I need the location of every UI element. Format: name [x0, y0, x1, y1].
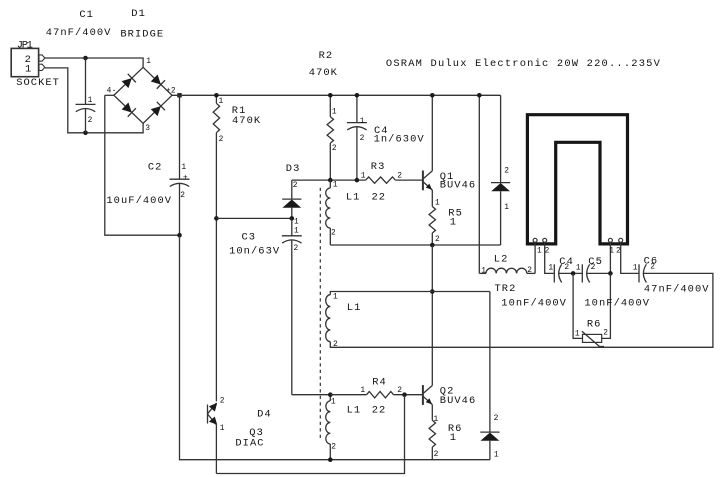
- svg-text:470K: 470K: [232, 115, 261, 127]
- svg-text:R6: R6: [587, 318, 602, 330]
- svg-text:1: 1: [481, 267, 486, 276]
- svg-text:10nF/400V: 10nF/400V: [501, 298, 567, 310]
- resistor R6 emitter: [429, 405, 435, 460]
- svg-text:2: 2: [527, 266, 532, 275]
- bridge diode D1c: [122, 102, 136, 116]
- svg-text:L1: L1: [347, 405, 362, 417]
- svg-text:47nF/400V: 47nF/400V: [46, 27, 112, 39]
- svg-text:L1: L1: [347, 302, 362, 314]
- junction C1 bottom: [83, 131, 88, 136]
- svg-text:10n/63V: 10n/63V: [229, 246, 280, 258]
- diode D5: [491, 95, 510, 245]
- junction midpoint: [430, 289, 435, 294]
- wire midpoint vertical: [431, 245, 433, 386]
- wire JP1 pin2 to bridge node 1: [45, 58, 143, 67]
- svg-text:2: 2: [219, 135, 224, 144]
- svg-text:1: 1: [575, 329, 580, 338]
- wire lamp left pin2 to C4: [545, 242, 555, 273]
- svg-text:TR2: TR2: [495, 283, 517, 295]
- svg-text:BUV46: BUV46: [440, 395, 476, 407]
- transistor Q1: [423, 95, 432, 190]
- junction C4 C5 R6: [571, 271, 576, 276]
- junction R2 bottom: [328, 178, 333, 183]
- svg-text:1: 1: [88, 96, 93, 105]
- inductor L1 winding A: [326, 180, 331, 245]
- svg-text:22: 22: [372, 405, 387, 417]
- svg-text:1: 1: [333, 180, 338, 189]
- svg-text:2: 2: [397, 386, 402, 395]
- svg-text:1n/630V: 1n/630V: [374, 134, 425, 146]
- bridge diode D1b: [151, 74, 165, 88]
- svg-text:R4: R4: [372, 376, 387, 388]
- bridge rectifier D1 outline: [105, 67, 172, 123]
- resistor R5: [429, 190, 435, 245]
- resistor R1: [213, 95, 219, 401]
- junction R2 top: [328, 93, 333, 98]
- svg-text:SOCKET: SOCKET: [16, 77, 60, 89]
- svg-text:1: 1: [450, 432, 457, 444]
- svg-text:1: 1: [494, 451, 499, 460]
- svg-text:2: 2: [616, 247, 621, 256]
- svg-text:3: 3: [145, 124, 150, 133]
- svg-text:2: 2: [434, 450, 439, 459]
- junction R5 bottom: [430, 243, 435, 248]
- svg-text:R3: R3: [371, 161, 386, 173]
- junction C2 bottom: [177, 233, 182, 238]
- inductor L1 winding B: [326, 292, 490, 342]
- svg-text:1: 1: [220, 424, 225, 433]
- svg-text:1: 1: [435, 198, 440, 207]
- svg-text:C3: C3: [242, 232, 257, 244]
- bridge diode D1d: [151, 102, 165, 116]
- junction R1 top: [214, 93, 219, 98]
- capacitor C5: [582, 264, 589, 282]
- resistor R4: [330, 392, 423, 398]
- junction C5 lamp R6: [608, 271, 613, 276]
- inductor L1 winding C: [326, 395, 331, 460]
- svg-text:2: 2: [435, 235, 440, 244]
- junction C4 bottom: [355, 178, 360, 183]
- svg-text:JP1: JP1: [17, 39, 33, 51]
- junction C4 top: [355, 93, 360, 98]
- bridge diode D1a: [122, 74, 136, 88]
- svg-text:BUV46: BUV46: [440, 180, 476, 192]
- svg-text:2: 2: [545, 247, 550, 256]
- svg-text:2: 2: [494, 414, 499, 423]
- svg-text:22: 22: [372, 191, 387, 203]
- svg-text:1: 1: [25, 63, 32, 75]
- wire top rail +2 to D5: [172, 94, 501, 96]
- wire bridge 4- to C2 bottom: [105, 95, 180, 235]
- svg-text:1: 1: [434, 415, 439, 424]
- svg-text:470K: 470K: [309, 67, 338, 79]
- svg-text:DIAC: DIAC: [235, 438, 264, 450]
- svg-text:+: +: [183, 173, 188, 182]
- svg-text:1: 1: [360, 386, 365, 395]
- svg-text:2: 2: [504, 166, 509, 175]
- svg-text:1: 1: [576, 264, 581, 273]
- wire lamp right pin2 to C6: [621, 242, 639, 273]
- node +2 junction: [177, 93, 181, 97]
- svg-text:1: 1: [294, 226, 299, 235]
- svg-text:10uF/400V: 10uF/400V: [106, 195, 172, 207]
- svg-text:4-: 4-: [107, 87, 117, 96]
- junction L2 top: [477, 93, 482, 98]
- svg-text:1: 1: [181, 163, 186, 172]
- svg-text:1: 1: [548, 264, 553, 273]
- capacitor C2: [170, 95, 190, 235]
- junction Q1 collector: [430, 93, 435, 98]
- svg-text:1: 1: [331, 397, 336, 406]
- svg-text:2: 2: [591, 263, 596, 272]
- connector JP1: [11, 48, 45, 76]
- svg-text:1: 1: [609, 247, 614, 256]
- wire JP1 pin1 to C1 bottom and bridge node 3: [45, 68, 143, 133]
- svg-text:2: 2: [331, 443, 336, 452]
- svg-text:2: 2: [360, 134, 365, 143]
- svg-text:2: 2: [603, 329, 608, 338]
- transformer TR2 core: [319, 188, 321, 440]
- capacitor C1: [76, 58, 96, 133]
- svg-text:2: 2: [293, 181, 298, 190]
- wire lamp right pin1: [609, 242, 611, 273]
- svg-text:D3: D3: [286, 163, 301, 175]
- capacitor C4 lamp: [554, 264, 561, 282]
- junction C1 top: [83, 56, 88, 61]
- svg-text:OSRAM Dulux Electronic 20W 220: OSRAM Dulux Electronic 20W 220...235V: [386, 58, 661, 70]
- transistor Q2: [423, 385, 432, 405]
- capacitor C4: [347, 95, 367, 180]
- svg-text:1: 1: [219, 97, 224, 106]
- svg-text:C1: C1: [79, 9, 94, 21]
- svg-text:1: 1: [450, 217, 457, 229]
- wire C6 to lamp return rail: [330, 273, 713, 347]
- svg-text:BRIDGE: BRIDGE: [120, 28, 164, 40]
- svg-text:2: 2: [88, 116, 93, 125]
- wire D3 cathode to R3: [292, 179, 366, 181]
- junction L1c bottom: [328, 457, 333, 462]
- wire R3 to Q1 base: [395, 179, 423, 181]
- inductor L2: [479, 95, 535, 273]
- svg-text:10nF/400V: 10nF/400V: [584, 298, 650, 310]
- svg-text:2: 2: [220, 396, 225, 405]
- wire diac to Q2 base: [216, 395, 404, 474]
- svg-text:D4: D4: [257, 409, 272, 421]
- svg-text:2: 2: [650, 263, 655, 272]
- svg-text:1: 1: [633, 263, 638, 272]
- svg-text:1: 1: [537, 247, 542, 256]
- svg-text:L1: L1: [346, 191, 361, 203]
- lamp OSRAM Dulux tube: [527, 115, 627, 244]
- svg-text:D1: D1: [131, 8, 146, 20]
- svg-text:1: 1: [360, 117, 365, 126]
- junction R1 bottom: [214, 216, 219, 221]
- svg-text:2: 2: [564, 263, 569, 272]
- varistor R6: [573, 273, 610, 346]
- svg-text:2: 2: [333, 340, 338, 349]
- wire C5 to lamp junction: [587, 272, 611, 274]
- svg-text:1: 1: [333, 292, 338, 301]
- diode D3: [282, 180, 301, 218]
- svg-text:2: 2: [332, 144, 337, 153]
- svg-text:1: 1: [146, 57, 151, 66]
- svg-text:1: 1: [504, 203, 509, 212]
- resistor R3: [366, 177, 396, 183]
- resistor R2: [327, 95, 333, 180]
- wire left rail to bottom rail: [180, 235, 490, 460]
- wire R1 to D3 anode: [216, 217, 291, 219]
- junction R4 Q2 base: [402, 392, 407, 397]
- diac Q3: [208, 403, 218, 474]
- svg-text:C2: C2: [148, 162, 163, 174]
- svg-text:R2: R2: [319, 50, 334, 62]
- capacitor C3: [282, 218, 331, 394]
- wire C4 to C5: [559, 272, 583, 274]
- svg-text:L2: L2: [494, 254, 509, 266]
- svg-text:2: 2: [294, 244, 299, 253]
- capacitor C6: [639, 264, 646, 282]
- svg-text:2: 2: [397, 172, 402, 181]
- svg-text:+2: +2: [166, 87, 176, 96]
- svg-text:1: 1: [361, 172, 366, 181]
- svg-text:1: 1: [332, 107, 337, 116]
- svg-text:2: 2: [331, 228, 336, 237]
- wire lamp left pin1: [534, 242, 536, 273]
- junction D3 C3: [290, 216, 295, 221]
- svg-text:2: 2: [180, 191, 185, 200]
- diode D6: [480, 292, 499, 460]
- svg-text:47nF/400V: 47nF/400V: [644, 283, 710, 295]
- junction C3 L1c R4: [328, 392, 333, 397]
- wire midpoint rail L1a to D5: [330, 244, 500, 246]
